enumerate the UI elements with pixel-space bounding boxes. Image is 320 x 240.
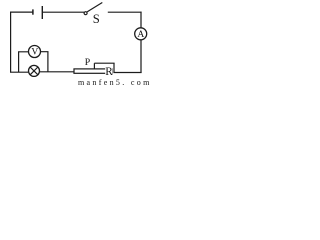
voltmeter: right branch wire bbox=[41, 52, 48, 72]
wire: left vertical side bbox=[10, 12, 12, 73]
wire: bottom rail left of lamp bbox=[10, 71, 28, 73]
lamp: bulb circle bbox=[29, 65, 40, 76]
rheostat: slider contact P bbox=[93, 63, 95, 69]
rheostat: slider top bar bbox=[94, 62, 114, 64]
battery: positive plate (long) bbox=[41, 6, 43, 19]
label R: white backing bbox=[105, 67, 112, 75]
svg-text:V: V bbox=[31, 47, 38, 58]
lamp: cross X bbox=[30, 67, 38, 75]
svg-text:manfen5. com: manfen5. com bbox=[78, 78, 150, 86]
switch S: pivot circle bbox=[84, 12, 87, 15]
svg-text:R: R bbox=[105, 66, 113, 78]
voltmeter: body circle bbox=[29, 46, 41, 58]
rheostat: slider riser bbox=[113, 63, 115, 72]
svg-text:A: A bbox=[137, 29, 144, 40]
battery: negative plate (short) bbox=[32, 9, 34, 14]
ammeter A: body circle bbox=[135, 28, 147, 40]
wire: switch to top-right corner bbox=[108, 11, 142, 13]
switch S: open lever bbox=[87, 3, 102, 12]
wire: battery to switch bbox=[42, 11, 84, 13]
svg-text:P: P bbox=[85, 57, 91, 68]
wire: bottom-right horizontal bbox=[113, 72, 141, 74]
svg-text:S: S bbox=[93, 12, 100, 26]
wire: right side down to ammeter bbox=[140, 12, 142, 28]
wire: ammeter to bottom-right corner bbox=[140, 40, 142, 73]
wire: top-left horizontal to battery bbox=[10, 11, 33, 13]
wire: bottom rail from lamp to rheostat bbox=[40, 71, 74, 73]
voltmeter: left branch wire bbox=[19, 52, 29, 72]
rheostat: body rectangle bbox=[74, 69, 112, 73]
